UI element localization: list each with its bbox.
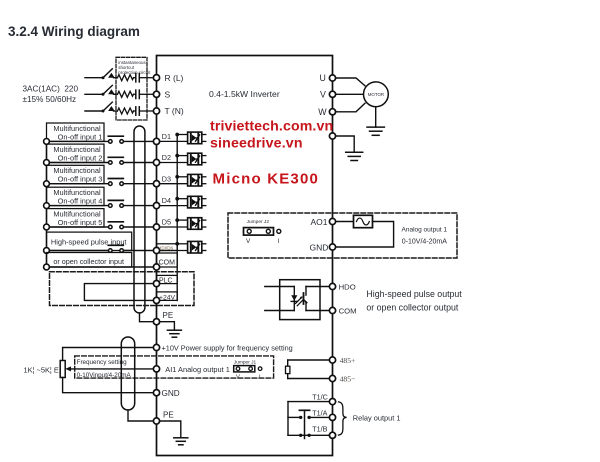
PLC to +24V link wire — [84, 284, 153, 301]
ground PE upper — [167, 330, 181, 337]
svg-text:S: S — [165, 90, 171, 100]
svg-text:GND: GND — [162, 389, 180, 398]
high-speed input label box — [47, 232, 132, 250]
terminal T1/A — [329, 414, 335, 420]
svg-text:HDO: HDO — [339, 283, 356, 292]
wire D1 to opto — [157, 135, 206, 142]
wire high-speed input — [47, 250, 154, 252]
terminal D4 — [153, 203, 159, 209]
terminal D1 — [153, 138, 159, 144]
junction D1 bus — [175, 133, 179, 137]
svg-text:T1/B: T1/B — [312, 425, 327, 434]
terminal PE upper — [153, 319, 159, 325]
terminal S — [153, 91, 159, 97]
svg-text:Analog output 1: Analog output 1 — [402, 226, 448, 233]
node input 2 — [44, 160, 50, 166]
terminal D2 — [153, 159, 159, 165]
jumper J2 spare pin — [277, 229, 281, 233]
wire meter to GND — [336, 222, 394, 248]
svg-text:D3: D3 — [162, 174, 171, 183]
node high-speed input — [44, 248, 50, 254]
open collector label box — [47, 253, 132, 268]
svg-text:On-off input 1: On-off input 1 — [58, 132, 103, 141]
analog meter symbol — [354, 215, 373, 227]
motor M1 — [364, 82, 389, 107]
terminal GND right — [329, 244, 335, 250]
svg-text:W: W — [318, 107, 327, 117]
svg-text:3.2.4 Wiring diagram: 3.2.4 Wiring diagram — [8, 24, 140, 39]
svg-text:COM: COM — [159, 260, 176, 267]
terminal GND left — [153, 390, 159, 396]
frequency setting dashed box — [75, 356, 274, 378]
terminal R (L) — [153, 75, 159, 81]
relay frame wires — [288, 402, 329, 436]
resistor R-phase1 — [118, 75, 134, 81]
HDO optocoupler box — [280, 280, 320, 320]
COM label box — [157, 253, 178, 267]
svg-text:D2: D2 — [162, 153, 171, 162]
svg-text:U: U — [320, 73, 326, 83]
wire D5 to opto — [157, 220, 206, 227]
svg-text:D4: D4 — [162, 196, 171, 205]
wire V to motor — [336, 93, 364, 95]
svg-text:V: V — [236, 374, 240, 380]
input label box 4 — [47, 187, 105, 205]
junction D4 bus — [175, 197, 179, 201]
inverter PE ground wire right — [336, 136, 355, 152]
junction D2 bus — [175, 154, 179, 158]
svg-text:D1: D1 — [162, 132, 171, 141]
wire AO1 to meter — [336, 221, 354, 223]
optocoupler U-D1 — [188, 132, 202, 144]
terminal D5 — [153, 224, 159, 230]
switch K4 — [108, 200, 123, 207]
terminal AI1 — [153, 366, 159, 372]
resistor R-phase2 — [118, 91, 134, 97]
svg-text:0.4-1.5kW Inverter: 0.4-1.5kW Inverter — [209, 89, 280, 99]
wire input 5 — [47, 226, 154, 228]
node input 1 — [44, 139, 50, 145]
switch K3 — [108, 179, 123, 186]
terminal D3 — [153, 181, 159, 187]
wire phase L3 — [85, 110, 117, 112]
terminal HDI — [153, 247, 159, 253]
terminal AO1 — [329, 218, 335, 224]
svg-text:+10V Power supply for frequenc: +10V Power supply for frequency setting — [162, 344, 293, 353]
junction D5 bus — [175, 218, 179, 222]
svg-text:I: I — [259, 374, 261, 380]
ground PE lower — [174, 438, 188, 445]
node input 5 — [44, 224, 50, 230]
svg-text:On-off input 5: On-off input 5 — [58, 218, 103, 227]
input label box 5 — [47, 209, 105, 227]
svg-text:3AC(1AC) 220: 3AC(1AC) 220 — [23, 85, 79, 94]
input common bus wire — [46, 141, 48, 267]
wire D3 to opto — [157, 177, 206, 184]
svg-text:0-10V/4-20mA: 0-10V/4-20mA — [402, 238, 447, 245]
breaker switch Q1 phase L2 — [102, 85, 115, 95]
svg-text:AI1 Analog output 1: AI1 Analog output 1 — [165, 365, 230, 374]
svg-text:PLC: PLC — [159, 278, 173, 285]
ground motor — [367, 127, 384, 135]
wire open collector common — [47, 266, 154, 268]
capacitor C-phase2 — [134, 90, 154, 98]
svg-text:or open collector output: or open collector output — [366, 303, 458, 313]
input label box 2 — [47, 144, 105, 162]
terminal PE lower — [153, 418, 159, 424]
svg-text:GND: GND — [310, 243, 329, 253]
svg-text:+24V: +24V — [159, 294, 176, 301]
optocoupler U-HDI — [188, 241, 202, 253]
jumper J1 spare pin — [258, 367, 262, 371]
svg-text:COM: COM — [339, 307, 357, 316]
svg-text:sineedrive.vn: sineedrive.vn — [210, 136, 303, 152]
relay contact armature — [299, 410, 311, 438]
optocoupler U-D4 — [188, 196, 202, 208]
svg-text:V: V — [320, 90, 326, 100]
terminal T (N) — [153, 108, 159, 114]
digital shielded cable — [134, 126, 145, 313]
terminal +24V — [153, 297, 159, 303]
terminal T1/C — [329, 399, 335, 405]
inverter enclosure box U1 — [157, 56, 333, 456]
junction D3 bus — [175, 175, 179, 179]
potentiometer RP1 — [60, 361, 65, 378]
junction HDI bus — [175, 242, 179, 246]
analog output dashed box — [228, 213, 457, 258]
input label box 1 — [47, 123, 105, 141]
jumper J1 block — [234, 366, 255, 372]
wire D4 to opto — [157, 199, 206, 206]
optocoupler U-D2 — [188, 153, 202, 165]
terminal 485- — [329, 375, 335, 381]
terminal COM left — [153, 264, 159, 270]
wire potentiometer to GND — [63, 378, 154, 393]
wire phase L1 — [85, 77, 117, 79]
485 termination wires — [288, 360, 330, 379]
terminal PLC — [153, 281, 159, 287]
svg-text:AO1: AO1 — [311, 217, 328, 227]
internal opto bus wire — [176, 135, 178, 301]
optocoupler U-D5 — [188, 218, 202, 230]
wire input 4 — [47, 205, 154, 207]
jumper J2 block — [244, 228, 274, 236]
svg-text:485−: 485− — [340, 375, 356, 384]
HDO phototransistor — [291, 293, 307, 306]
svg-text:On-off input 3: On-off input 3 — [58, 175, 103, 184]
svg-text:R (L): R (L) — [165, 73, 184, 83]
svg-text:PE: PE — [163, 411, 174, 420]
wire input 2 — [47, 162, 154, 164]
terminal PE right — [329, 133, 335, 139]
analog shield drain to PE — [128, 410, 153, 421]
svg-text:0-10Vinput/4-20mA: 0-10Vinput/4-20mA — [77, 372, 132, 379]
svg-text:V: V — [246, 238, 251, 245]
wire HDI to opto — [157, 244, 206, 251]
PLC jumper dashed box — [50, 272, 195, 306]
HDO opto stub wires left — [265, 287, 295, 311]
terminal HDO — [329, 283, 335, 289]
PE upper ground wire — [160, 322, 175, 331]
terminal U — [329, 75, 335, 81]
svg-text:Frequency setting: Frequency setting — [77, 359, 128, 366]
svg-text:MOTOR: MOTOR — [368, 92, 384, 97]
terminal +10V — [153, 344, 159, 350]
node open collector — [44, 264, 50, 270]
node input 4 — [44, 203, 50, 209]
svg-text:PE: PE — [163, 311, 174, 320]
node input 3 — [44, 181, 50, 187]
analog shielded cable — [121, 337, 134, 410]
switch K5 — [108, 222, 123, 229]
wire input 1 — [47, 140, 154, 142]
breaker switch Q1 phase L1 — [102, 69, 115, 79]
wire W to motor — [336, 103, 365, 112]
svg-text:I: I — [278, 238, 280, 245]
wire input 3 — [47, 183, 154, 185]
svg-text:On-off input 2: On-off input 2 — [58, 154, 103, 163]
switch K2 — [108, 157, 123, 164]
wire +10V to potentiometer — [63, 348, 154, 361]
svg-text:On-off input 4: On-off input 4 — [58, 197, 103, 206]
svg-text:Relay output 1: Relay output 1 — [353, 414, 401, 423]
resistor R-phase3 — [118, 108, 134, 114]
svg-text:High-speed pulse output: High-speed pulse output — [366, 289, 462, 299]
svg-text:D5: D5 — [162, 218, 171, 227]
svg-text:1K¦ ~5K¦ E: 1K¦ ~5K¦ E — [24, 365, 59, 374]
breaker switch Q1 phase L3 — [102, 102, 115, 112]
switch K1 — [108, 136, 123, 143]
termination resistor 485 — [286, 366, 290, 373]
svg-text:T (N): T (N) — [165, 106, 184, 116]
svg-text:or open collector input: or open collector input — [53, 257, 124, 266]
wire phase L2 — [85, 93, 117, 95]
potentiometer wiper wire — [65, 366, 153, 371]
wire U to motor — [336, 78, 365, 86]
svg-text:T1/A: T1/A — [312, 408, 327, 417]
terminal T1/B — [329, 432, 335, 438]
svg-text:triviettech.com.vn: triviettech.com.vn — [210, 119, 333, 135]
PLC label box — [157, 275, 178, 283]
terminal V — [329, 91, 335, 97]
switch K6 — [108, 245, 123, 252]
capacitor C-phase3 — [134, 107, 154, 115]
svg-text:Jumper J2: Jumper J2 — [247, 219, 270, 225]
svg-text:T1/C: T1/C — [312, 393, 328, 402]
terminal W — [329, 109, 335, 115]
wire D2 to opto — [157, 156, 206, 163]
ground inverter PE — [346, 152, 363, 160]
terminal 485+ — [329, 357, 335, 363]
svg-text:protection circuit: protection circuit — [118, 70, 151, 75]
svg-text:485+: 485+ — [340, 356, 356, 365]
input label box 3 — [47, 165, 105, 183]
optocoupler U-D3 — [188, 174, 202, 186]
terminal COM right — [329, 307, 335, 313]
svg-text:Micno KE300: Micno KE300 — [213, 171, 320, 188]
HDI label box — [157, 244, 178, 251]
+24V label box — [157, 292, 178, 301]
relay brace — [339, 402, 347, 435]
shield drain wire to PE — [140, 313, 154, 322]
capacitor C-phase1 — [134, 74, 154, 82]
svg-text:±15% 50/60Hz: ±15% 50/60Hz — [23, 95, 77, 104]
motor ground wire — [375, 107, 377, 127]
protection circuit dashed box — [116, 57, 151, 120]
PE lower ground wire — [160, 421, 181, 438]
svg-text:Jumper J1: Jumper J1 — [234, 359, 257, 365]
HDO opto output wires — [306, 287, 336, 311]
